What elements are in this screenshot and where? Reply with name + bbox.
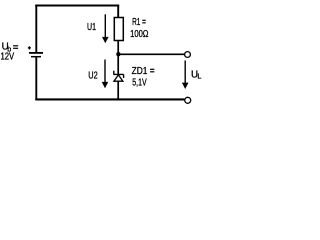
svg-text:12V: 12V (1, 52, 15, 63)
svg-text:100Ω: 100Ω (130, 29, 148, 40)
svg-text:R1 =: R1 = (132, 17, 146, 28)
svg-text:U1: U1 (87, 22, 96, 33)
svg-text:U2: U2 (88, 71, 97, 82)
svg-text:L: L (197, 71, 201, 80)
svg-text:ZD1 =: ZD1 = (132, 66, 155, 77)
svg-text:5,1V: 5,1V (132, 78, 147, 89)
